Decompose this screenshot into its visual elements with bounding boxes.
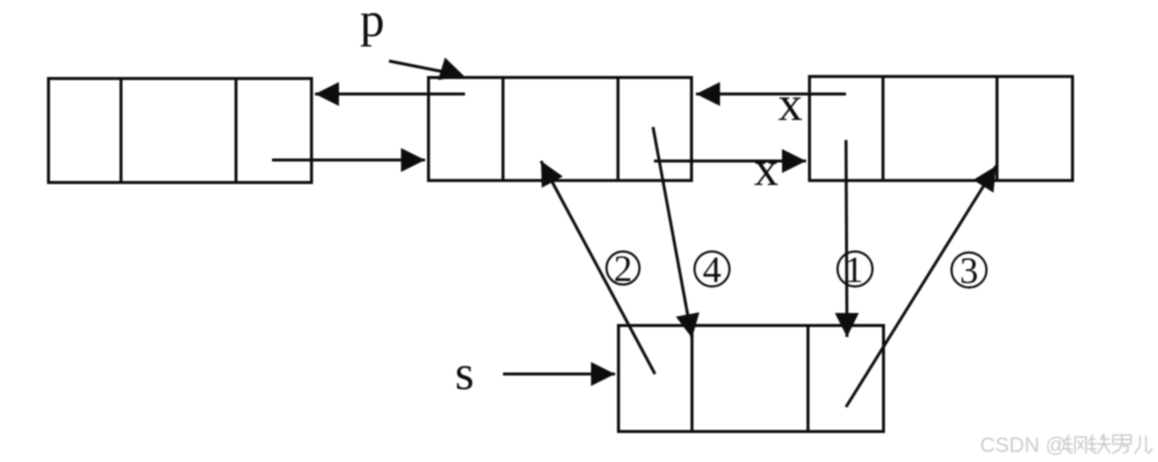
node S (bottom new node pointed by s, 3 cells) — [619, 326, 884, 432]
circled 3 — [952, 251, 987, 292]
svg-text:1: 1 — [845, 250, 864, 291]
svg-text:CSDN @: CSDN @ — [980, 434, 1067, 457]
watermark hanzi nan (male) — [1113, 435, 1131, 453]
arrow 4: node M cell3 down to node S top — [653, 127, 692, 338]
watermark hanzi er (child) — [1135, 436, 1152, 453]
circled 1 — [838, 250, 873, 291]
arrow s to node S — [503, 373, 615, 376]
watermark hanzi tie (iron) — [1088, 435, 1110, 453]
svg-text:s: s — [455, 345, 474, 400]
svg-text:p: p — [360, 0, 385, 47]
circled 2 — [607, 249, 640, 290]
arrow R.prior to node M (crossed out x) — [696, 93, 846, 96]
svg-text:3: 3 — [960, 251, 979, 292]
svg-text:x: x — [754, 141, 779, 196]
arrow p to node M — [389, 58, 464, 81]
node L (left list node, 3 cells) — [49, 79, 312, 183]
svg-text:x: x — [778, 76, 803, 131]
node R (right list node, 3 cells) — [810, 77, 1073, 181]
arrow 1: R.prior cell down to node S cell3 — [846, 140, 847, 337]
arrow 3: node S cell3 up to node R bottom — [846, 166, 996, 407]
svg-text:2: 2 — [614, 249, 633, 290]
arrow M.prior to node L — [315, 93, 465, 96]
watermark hanzi gang (steel) — [1064, 435, 1086, 453]
node M (middle list node pointed by p, 3 cells) — [429, 78, 692, 181]
arrow M.next to node R (crossed out x) — [654, 160, 806, 163]
circled 4 — [695, 250, 730, 291]
arrow L.next to node M — [272, 159, 425, 162]
svg-text:4: 4 — [703, 250, 722, 291]
arrow 2: node S cell1 up to node M bottom — [541, 161, 655, 374]
